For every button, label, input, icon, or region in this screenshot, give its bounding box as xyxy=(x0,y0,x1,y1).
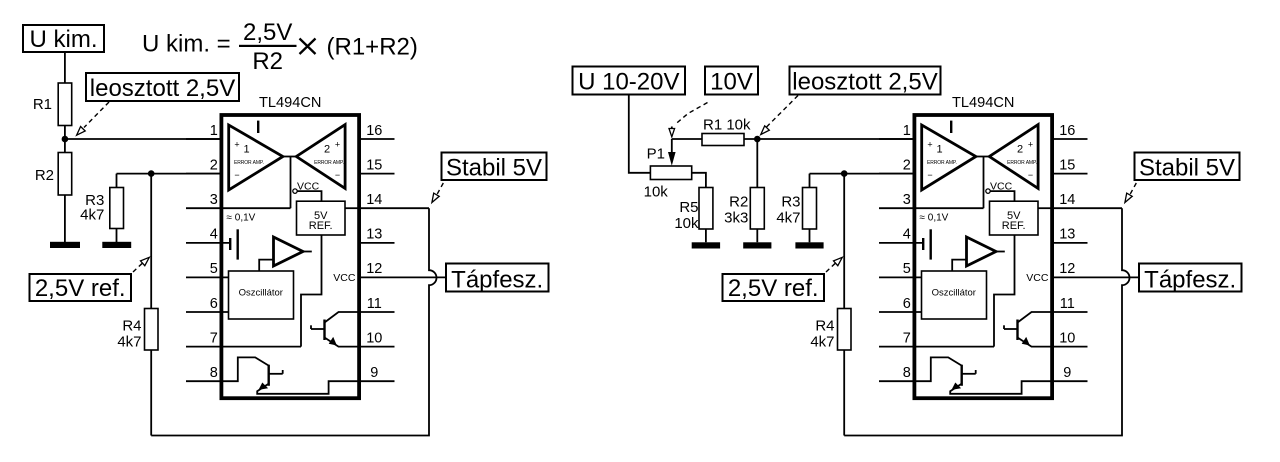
svg-text:8: 8 xyxy=(210,365,218,381)
svg-text:10V: 10V xyxy=(710,68,753,95)
svg-text:ERROR AMP.: ERROR AMP. xyxy=(234,160,264,166)
svg-text:4: 4 xyxy=(210,227,218,243)
svg-text:Stabil 5V: Stabil 5V xyxy=(446,155,542,182)
svg-text:U kim. =: U kim. = xyxy=(142,31,231,58)
svg-text:−: − xyxy=(335,170,340,180)
svg-text:2,5V: 2,5V xyxy=(243,19,292,46)
svg-text:R5: R5 xyxy=(679,199,698,216)
svg-text:11: 11 xyxy=(367,296,382,312)
svg-text:(R1+R2): (R1+R2) xyxy=(327,33,418,60)
svg-text:2,5V ref.: 2,5V ref. xyxy=(35,275,126,302)
svg-text:TL494CN: TL494CN xyxy=(259,95,321,111)
svg-text:12: 12 xyxy=(366,261,382,277)
svg-text:R3: R3 xyxy=(781,194,800,211)
svg-text:−: − xyxy=(234,170,239,180)
svg-text:15: 15 xyxy=(366,157,382,173)
svg-text:R1: R1 xyxy=(33,96,52,113)
svg-text:9: 9 xyxy=(370,365,378,381)
svg-text:6: 6 xyxy=(210,296,218,312)
svg-text:ERROR AMP.: ERROR AMP. xyxy=(314,160,344,166)
svg-text:1: 1 xyxy=(210,123,218,139)
svg-text:5: 5 xyxy=(210,261,218,277)
svg-text:4k7: 4k7 xyxy=(117,334,141,351)
svg-text:7: 7 xyxy=(210,330,218,346)
svg-text:leosztott 2,5V: leosztott 2,5V xyxy=(90,75,235,102)
svg-text:leosztott 2,5V: leosztott 2,5V xyxy=(792,68,937,95)
svg-text:10: 10 xyxy=(366,330,382,346)
svg-text:2: 2 xyxy=(324,144,330,156)
svg-text:10k: 10k xyxy=(644,183,669,200)
svg-text:U 10-20V: U 10-20V xyxy=(578,68,679,95)
svg-text:R1 10k: R1 10k xyxy=(703,117,751,134)
svg-text:1: 1 xyxy=(243,144,249,156)
svg-text:R2: R2 xyxy=(252,48,283,75)
svg-text:R4: R4 xyxy=(122,318,141,335)
svg-text:R2: R2 xyxy=(729,194,748,211)
svg-text:4k7: 4k7 xyxy=(80,207,104,224)
svg-text:14: 14 xyxy=(366,192,382,208)
svg-text:3: 3 xyxy=(210,192,218,208)
svg-text:REF.: REF. xyxy=(309,220,333,232)
svg-text:13: 13 xyxy=(366,227,382,243)
svg-text:Oszcillátor: Oszcillátor xyxy=(239,287,283,298)
svg-text:R2: R2 xyxy=(35,167,54,184)
svg-text:U kim.: U kim. xyxy=(30,26,98,53)
svg-text:Tápfesz.: Tápfesz. xyxy=(451,266,543,293)
svg-text:10k: 10k xyxy=(674,215,699,232)
svg-text:2: 2 xyxy=(210,157,218,173)
svg-text:3k3: 3k3 xyxy=(724,210,748,227)
svg-text:VCC: VCC xyxy=(333,272,356,284)
svg-text:4k7: 4k7 xyxy=(776,210,800,227)
svg-text:≈ 0,1V: ≈ 0,1V xyxy=(227,212,256,223)
svg-text:P1: P1 xyxy=(647,146,665,163)
svg-text:+: + xyxy=(234,139,239,149)
svg-text:16: 16 xyxy=(366,123,382,139)
svg-text:VCC: VCC xyxy=(297,180,320,192)
svg-text:+: + xyxy=(335,139,340,149)
